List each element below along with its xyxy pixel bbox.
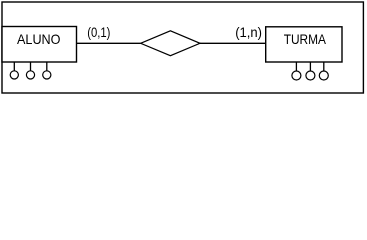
attribute stem A1 [13,62,15,71]
attribute stem T2 [309,62,311,71]
wire relationship-TURMA [200,42,266,44]
entity ALUNO box [2,27,77,63]
attribute circle A1 [10,71,18,79]
svg-text:(0,1): (0,1) [87,25,110,40]
outer frame [2,2,363,93]
svg-text:(1,n): (1,n) [235,25,262,40]
attribute circle A2 [26,71,34,79]
attribute stem T1 [295,62,297,71]
attribute stem A3 [46,62,48,71]
attribute circle T1 [292,71,301,80]
relationship diamond [141,31,200,56]
attribute stem A2 [30,62,32,71]
attribute circle T2 [306,71,315,80]
attribute circle T3 [319,71,328,80]
wire ALUNO-relationship [77,42,141,44]
entity TURMA box [266,27,342,62]
svg-text:ALUNO: ALUNO [17,32,61,47]
attribute stem T3 [323,62,325,71]
attribute circle A3 [43,71,51,79]
svg-text:TURMA: TURMA [284,32,327,47]
